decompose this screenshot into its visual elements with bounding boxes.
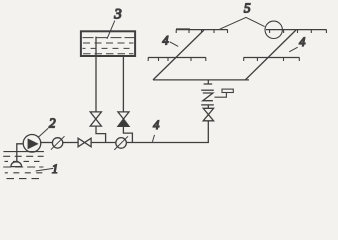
right-middle lateral <box>244 57 300 59</box>
pipe <box>63 142 78 144</box>
svg-text:5: 5 <box>244 0 251 15</box>
hydrant stand flag <box>222 89 233 92</box>
network bottom supply line <box>153 79 249 81</box>
leader 4 left <box>170 42 179 47</box>
left riser jog to main <box>96 126 106 142</box>
check valve filled triangle <box>118 119 129 126</box>
top-right lateral <box>266 29 327 31</box>
gate valve on main <box>78 138 91 147</box>
left distribution diagonal <box>153 30 204 80</box>
hydrant upper dash <box>201 89 214 91</box>
left-middle lateral <box>148 57 206 59</box>
foot strainer <box>11 162 22 167</box>
tank water <box>83 38 135 54</box>
stem to supply line <box>207 80 209 84</box>
leader 4 bottom <box>152 135 154 142</box>
flow meter A <box>52 138 62 148</box>
right riser pipe (tank outlet) <box>122 57 124 112</box>
hydrant riser pipe <box>207 121 209 143</box>
svg-text:4: 4 <box>299 35 305 49</box>
left riser pipe (pump to tank) <box>95 37 97 112</box>
leader 2 <box>38 128 48 137</box>
hydrant Z symbol <box>203 93 213 101</box>
gate valve on hydrant riser <box>203 108 213 121</box>
pipe to riser <box>126 142 208 144</box>
top-left lateral <box>176 29 228 31</box>
water source 1 hatching <box>3 152 44 179</box>
right distribution diagonal <box>245 30 296 80</box>
svg-text:4: 4 <box>153 118 159 132</box>
hydrant top bar <box>204 83 213 85</box>
tank 3 <box>81 31 135 56</box>
gate valve on left riser <box>90 112 101 126</box>
suction pipe <box>17 144 24 162</box>
leaders 5 <box>220 17 265 29</box>
svg-text:4: 4 <box>162 33 168 47</box>
pump 2 <box>23 135 41 153</box>
sprinkler circle 5 <box>265 21 282 38</box>
leader 3 <box>107 21 115 39</box>
pipe <box>91 142 116 144</box>
riser stem above valve <box>207 105 209 108</box>
check valve on right riser: top outline triangle <box>118 112 129 119</box>
flow meter B <box>116 138 127 149</box>
right riser jog to main <box>123 126 132 142</box>
hydrant lower dash <box>201 104 214 106</box>
leader 1 <box>36 168 54 171</box>
leader 4 right <box>289 47 298 52</box>
svg-text:2: 2 <box>49 115 56 130</box>
svg-text:3: 3 <box>113 6 122 22</box>
main pipe 4 (horizontal) <box>41 142 53 144</box>
